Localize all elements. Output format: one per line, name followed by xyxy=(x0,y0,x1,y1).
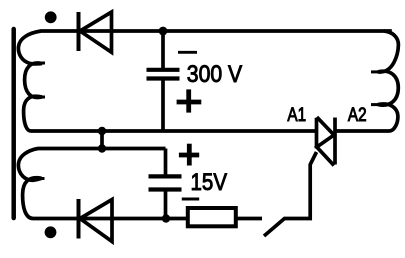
svg-text:A1: A1 xyxy=(287,105,306,126)
capacitor C2 bottom plate xyxy=(149,187,182,191)
secondary winding (bottom-left coil) + lower wire + bottom wire xyxy=(18,149,262,219)
label minus C1 xyxy=(178,51,197,54)
switch S1 blade and gate wire xyxy=(264,152,317,236)
label plus C1 xyxy=(177,100,202,105)
capacitor C1 bottom plate xyxy=(147,76,180,80)
winding cusp nub xyxy=(37,177,45,180)
winding cusp nub xyxy=(37,96,45,99)
triac U1 left bar A1 xyxy=(315,118,319,149)
junction dot node top xyxy=(159,27,168,36)
diode D2 triangle xyxy=(80,200,112,242)
capacitor C2 bottom wire xyxy=(164,192,168,219)
winding cusp nub xyxy=(37,62,45,65)
svg-text:15V: 15V xyxy=(191,169,228,196)
capacitor C1 top wire xyxy=(161,31,165,68)
winding cusp nub xyxy=(371,70,379,73)
triac U1 triangles zigzag xyxy=(317,117,334,166)
junction dot bottom xyxy=(162,214,170,222)
diode D1 cathode bar xyxy=(77,12,81,51)
capacitor C2 top plate xyxy=(149,174,182,178)
label minus C2 xyxy=(182,198,199,201)
primary winding (top-left coil) + top wire + middle wire xyxy=(18,31,391,131)
polarity dot bottom xyxy=(45,226,57,238)
resistor R1 xyxy=(188,208,236,226)
capacitor C1 bottom wire xyxy=(161,81,165,132)
transformer core T1 xyxy=(11,29,16,218)
svg-text:A2: A2 xyxy=(348,105,367,126)
polarity dot top xyxy=(45,11,57,23)
capacitor C1 top plate xyxy=(147,68,180,72)
junction dot center tap lower xyxy=(98,144,106,152)
capacitor C2 top wire xyxy=(164,149,168,175)
diode D1 triangle xyxy=(80,12,112,52)
winding cusp nub xyxy=(371,103,379,106)
label plus C2 xyxy=(179,153,199,158)
diode D2 cathode bar xyxy=(77,199,81,239)
wire center tap link xyxy=(100,131,104,149)
junction dot center tap upper xyxy=(98,127,106,135)
triac U1 right bar A2 xyxy=(333,118,337,165)
svg-text:300 V: 300 V xyxy=(187,61,242,88)
right winding (output coil) + A2 wire xyxy=(335,31,398,131)
